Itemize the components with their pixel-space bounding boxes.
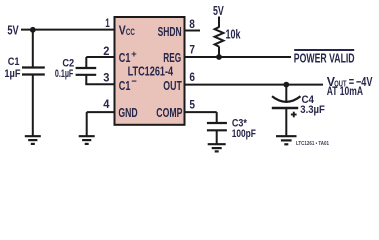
svg-text:1µF: 1µF	[4, 68, 21, 80]
wire 5V rail to pin 1	[21, 29, 115, 31]
junction dot at C4 tap	[283, 82, 289, 88]
wire C2 top lead	[85, 57, 87, 68]
svg-text:100pF: 100pF	[232, 128, 256, 140]
svg-text:POWER VALID: POWER VALID	[294, 51, 355, 66]
svg-text:10k: 10k	[226, 28, 241, 42]
ground under pin 4	[79, 136, 95, 144]
svg-text:5V: 5V	[213, 4, 224, 18]
svg-text:SHDN: SHDN	[158, 24, 182, 39]
svg-text:CC: CC	[126, 27, 135, 37]
pin label C1-	[119, 77, 137, 93]
wire C4 top lead	[285, 85, 287, 102]
svg-text:5: 5	[189, 100, 195, 112]
svg-text:4: 4	[103, 99, 110, 111]
wire C3 bottom lead	[216, 130, 218, 144]
wire 5V to resistor top	[218, 17, 220, 28]
svg-text:3: 3	[103, 73, 109, 85]
capacitor C3	[207, 123, 227, 130]
wire pin 5 stub	[185, 111, 217, 113]
svg-text:OUT: OUT	[163, 78, 182, 93]
wire pin 6 to VOUT	[185, 84, 324, 86]
svg-text:C1: C1	[8, 56, 20, 68]
capacitor C4 (polarized 3.3µF)	[272, 96, 301, 108]
svg-text:6: 6	[189, 72, 195, 84]
junction dot at C1 tap	[30, 27, 36, 33]
svg-text:C1: C1	[119, 51, 131, 65]
IC U1 LTC1261-4 body	[115, 17, 185, 125]
wire C1 bottom lead	[32, 75, 34, 137]
wire pin 7 to POWER VALID	[185, 56, 292, 58]
svg-text:0.1µF: 0.1µF	[55, 68, 74, 80]
svg-text:7: 7	[189, 45, 195, 57]
svg-text:1: 1	[105, 18, 110, 30]
svg-text:3.3µF: 3.3µF	[300, 104, 325, 116]
net label VOUT = -4V	[327, 74, 373, 89]
wire C3 top lead	[216, 112, 218, 123]
svg-text:AT 10mA: AT 10mA	[327, 84, 364, 98]
svg-text:GND: GND	[118, 105, 137, 120]
ground under C4	[276, 136, 297, 144]
wire pin 4 down lead	[86, 112, 88, 136]
wire C4 bottom lead	[285, 108, 287, 136]
ground under C3	[208, 144, 226, 151]
wire C2 bottom lead to pin 3	[85, 75, 87, 84]
capacitor C1	[22, 68, 45, 75]
plus sign of C4	[291, 112, 297, 118]
svg-text:8: 8	[189, 19, 195, 31]
ground under C1	[25, 136, 41, 144]
net label POWER VALID (active low overbar)	[294, 50, 355, 66]
wire resistor bottom to pin 7 line	[218, 46, 220, 57]
pin label VCC	[119, 24, 136, 38]
wire pin 3 stub	[85, 83, 114, 85]
svg-text:+: +	[131, 49, 137, 59]
wire pin 8 stub	[185, 30, 201, 32]
wire C1 top lead	[32, 30, 34, 68]
wire pin 4 stub	[87, 111, 115, 113]
svg-text:C1: C1	[119, 79, 131, 93]
svg-text:2: 2	[103, 46, 109, 58]
svg-text:−: −	[131, 77, 137, 88]
svg-text:LTC1261 • TA01: LTC1261 • TA01	[296, 141, 329, 147]
wire pin 2 stub	[86, 56, 114, 58]
svg-text:REG: REG	[163, 50, 181, 65]
resistor R 10k	[215, 27, 224, 47]
svg-text:COMP: COMP	[156, 105, 182, 120]
svg-text:5V: 5V	[7, 24, 19, 38]
capacitor C2 (flying cap)	[76, 68, 97, 75]
junction dot resistor/pin7	[216, 54, 222, 60]
pin label C1+	[119, 49, 137, 65]
